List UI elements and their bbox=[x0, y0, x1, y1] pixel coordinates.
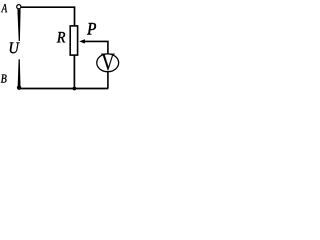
voltmeter V letter bbox=[101, 54, 114, 71]
node A terminal circle bbox=[17, 5, 21, 9]
wire bottom bbox=[18, 88, 108, 90]
wiper arrow shaft and corner down to voltmeter lead bbox=[84, 41, 108, 54]
label R bbox=[57, 32, 65, 42]
resistor bottom lead wire bbox=[73, 55, 75, 88]
wiper arrowhead bbox=[79, 39, 85, 43]
junction dot resistor lead / bottom wire bbox=[73, 87, 77, 91]
label U bbox=[10, 43, 20, 54]
resistor R box bbox=[70, 26, 77, 55]
voltmeter bottom lead wire bbox=[107, 72, 109, 89]
label P bbox=[87, 23, 96, 35]
voltmeter circle bbox=[97, 54, 119, 72]
wire left lower segment (tapered) bbox=[18, 59, 21, 86]
junction dot at node B corner bbox=[17, 86, 21, 90]
wire top: from node A to corner above resistor R bbox=[21, 7, 75, 26]
label B bbox=[1, 75, 7, 83]
label A bbox=[1, 4, 7, 12]
wire left upper segment (tapered) bbox=[17, 9, 20, 41]
